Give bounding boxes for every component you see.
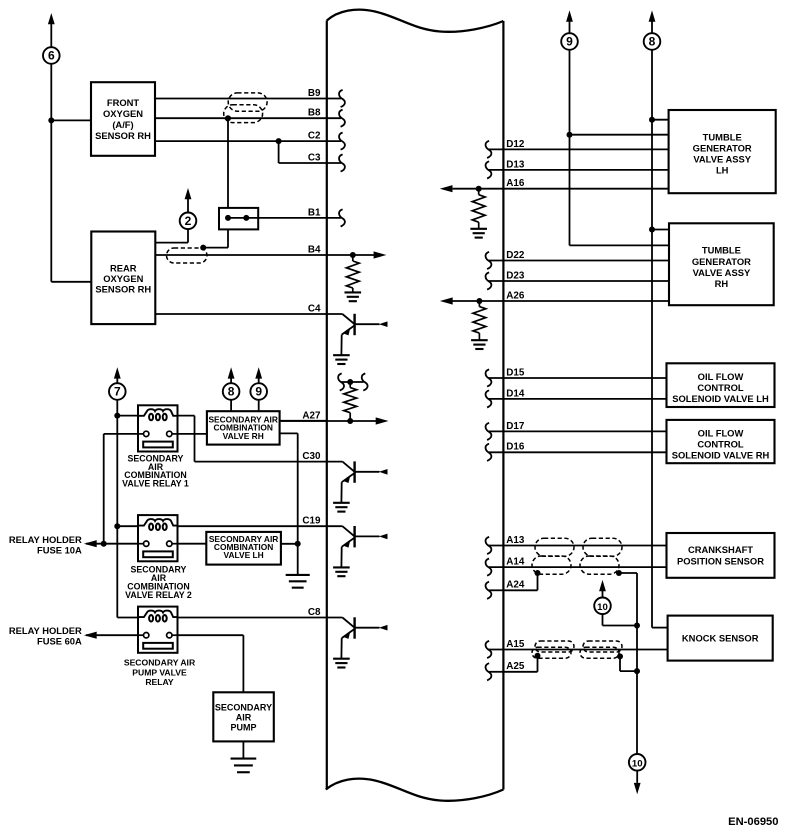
svg-text:A24: A24 [506,580,525,591]
svg-text:C4: C4 [308,303,321,314]
svg-text:VALVE ASSY: VALVE ASSY [693,267,751,278]
svg-text:FUSE 60A: FUSE 60A [37,635,82,646]
svg-text:C30: C30 [302,451,321,462]
svg-text:SOLENOID VALVE LH: SOLENOID VALVE LH [672,393,769,404]
svg-text:D17: D17 [506,421,525,432]
svg-text:A27: A27 [302,410,321,421]
svg-text:CONTROL: CONTROL [697,382,744,393]
svg-text:SOLENOID VALVE RH: SOLENOID VALVE RH [672,450,770,461]
svg-text:8: 8 [228,385,235,399]
svg-text:C19: C19 [302,516,321,527]
svg-text:D14: D14 [506,388,525,399]
svg-text:VALVE LH: VALVE LH [224,550,264,560]
svg-text:PUMP VALVE: PUMP VALVE [132,667,187,677]
svg-text:EN-06950: EN-06950 [728,816,778,828]
svg-text:C8: C8 [308,607,321,618]
svg-text:D22: D22 [506,250,525,261]
svg-text:REAR: REAR [110,263,137,274]
svg-text:GENERATOR: GENERATOR [693,143,752,154]
svg-text:VALVE ASSY: VALVE ASSY [693,154,751,165]
svg-text:C2: C2 [308,131,321,142]
svg-text:9: 9 [566,35,573,49]
svg-text:B9: B9 [308,88,321,99]
svg-text:B4: B4 [308,244,321,255]
svg-text:CRANKSHAFT: CRANKSHAFT [688,544,753,555]
svg-text:LH: LH [716,165,729,176]
svg-text:(A/F): (A/F) [112,119,133,130]
svg-text:RELAY: RELAY [145,677,174,687]
svg-text:6: 6 [48,49,55,63]
svg-text:VALVE RH: VALVE RH [223,431,264,441]
svg-text:KNOCK SENSOR: KNOCK SENSOR [682,633,759,644]
svg-text:TUMBLE: TUMBLE [703,131,742,142]
svg-text:GENERATOR: GENERATOR [692,256,751,267]
svg-text:10: 10 [597,602,608,613]
svg-text:A25: A25 [506,661,525,672]
svg-text:D12: D12 [506,139,525,150]
svg-text:8: 8 [649,35,656,49]
svg-text:A15: A15 [506,639,525,650]
svg-text:OXYGEN: OXYGEN [103,108,143,119]
svg-text:FUSE 10A: FUSE 10A [37,544,82,555]
svg-text:A16: A16 [506,178,525,189]
svg-text:D13: D13 [506,159,525,170]
svg-text:D16: D16 [506,442,525,453]
svg-text:RH: RH [715,278,729,289]
svg-text:SECONDARY: SECONDARY [215,702,272,712]
svg-text:SECONDARY AIR: SECONDARY AIR [124,658,196,668]
svg-text:A14: A14 [506,557,525,568]
svg-text:OIL FLOW: OIL FLOW [698,427,744,438]
svg-text:OIL FLOW: OIL FLOW [698,371,744,382]
svg-text:VALVE RELAY 1: VALVE RELAY 1 [122,479,189,489]
svg-text:7: 7 [114,385,121,399]
svg-text:OXYGEN: OXYGEN [103,273,143,284]
svg-text:PUMP: PUMP [230,722,256,732]
svg-text:A26: A26 [506,290,525,301]
svg-text:TUMBLE: TUMBLE [702,245,741,256]
svg-text:CONTROL: CONTROL [697,439,744,450]
svg-text:B1: B1 [308,207,321,218]
svg-text:10: 10 [632,759,643,770]
svg-text:SENSOR RH: SENSOR RH [95,130,151,141]
svg-text:SENSOR RH: SENSOR RH [95,284,151,295]
svg-text:C3: C3 [308,152,321,163]
svg-text:VALVE RELAY 2: VALVE RELAY 2 [125,590,192,600]
svg-text:A13: A13 [506,535,525,546]
svg-text:FRONT: FRONT [107,97,140,108]
svg-text:9: 9 [255,385,262,399]
svg-text:D15: D15 [506,367,525,378]
svg-text:POSITION SENSOR: POSITION SENSOR [677,555,764,566]
svg-text:D23: D23 [506,270,525,281]
svg-text:AIR: AIR [236,712,252,722]
svg-text:2: 2 [185,214,192,228]
svg-text:B8: B8 [308,108,321,119]
